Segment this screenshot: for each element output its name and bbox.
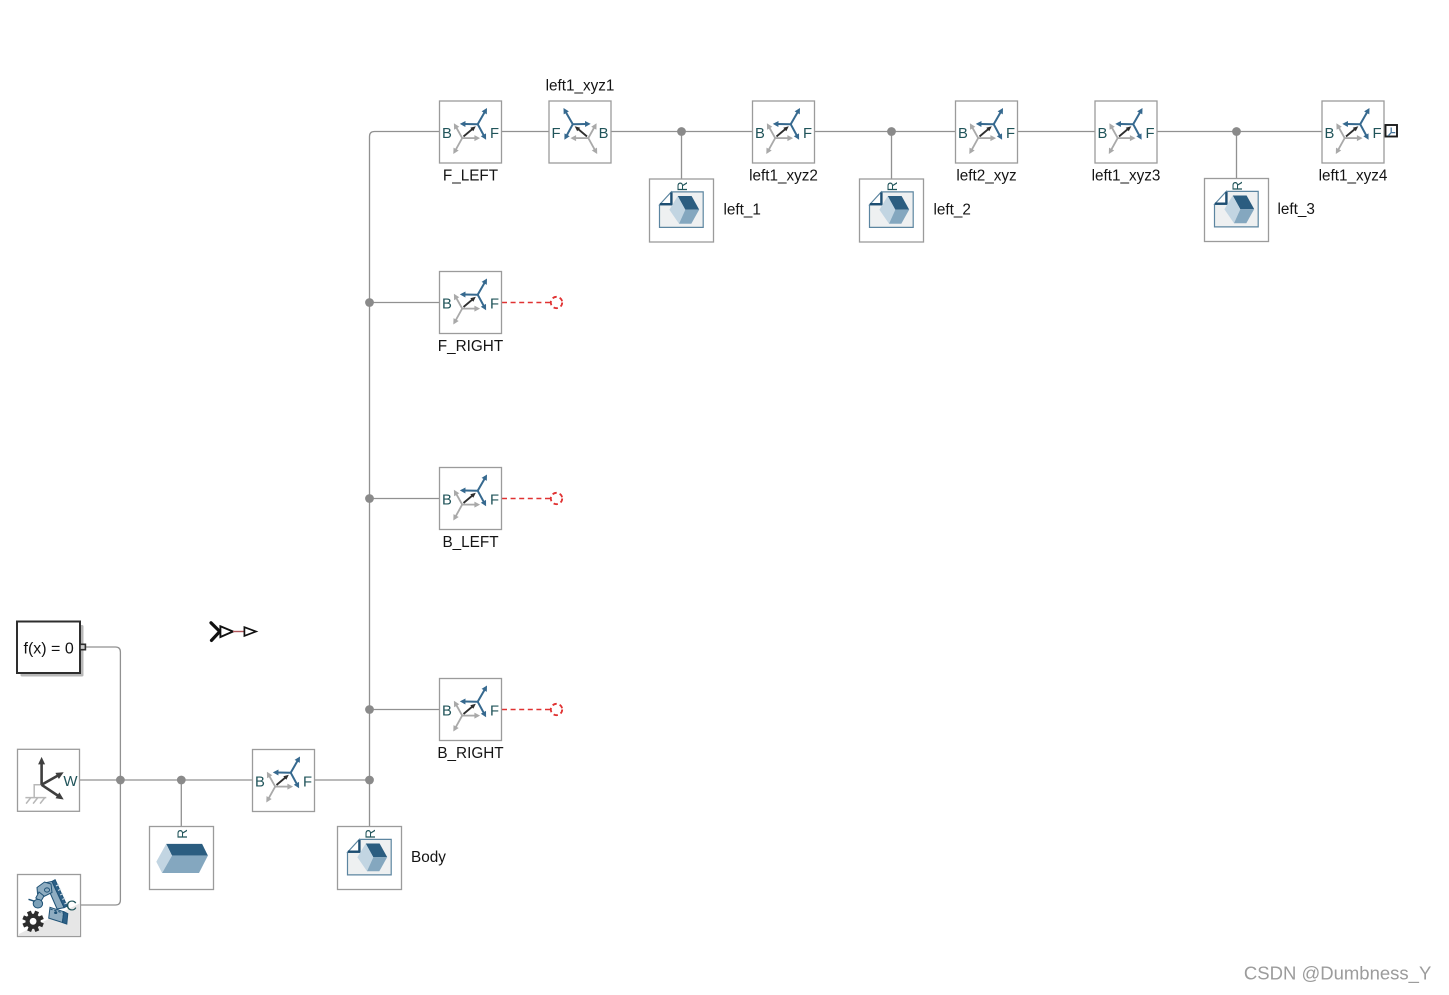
wire drop to brick solid R port [180,780,182,827]
svg-text:F_LEFT: F_LEFT [443,168,498,185]
unconnected port marker B_RIGHT F [502,704,562,715]
svg-text:B_RIGHT: B_RIGHT [437,745,503,762]
solver configuration block f(x)=0 [17,622,85,677]
wire left2_xyz to left1_xyz3 [1018,131,1096,133]
svg-text:CSDN @Dumbness_Y: CSDN @Dumbness_Y [1244,962,1431,984]
wire drop to left_2 R port [891,132,893,180]
svg-text:B: B [442,703,452,719]
rigid transform left2_xyz [956,101,1018,163]
unconnected port marker B_LEFT F [502,493,562,504]
svg-text:B: B [1098,126,1108,142]
svg-text:left2_xyz: left2_xyz [956,168,1016,185]
svg-text:R: R [885,181,900,191]
svg-text:F: F [1145,126,1154,142]
unconnected port marker F_RIGHT F [502,297,562,308]
svg-text:F: F [1372,126,1381,142]
wire left1_xyz1 to left1_xyz2 [611,131,753,133]
rigid transform left1_xyz2 [753,101,815,163]
wire left1_xyz2 to left2_xyz [815,131,956,133]
file solid left_2 [860,179,924,242]
junction B_LEFT [365,494,374,503]
svg-text:left_2: left_2 [934,201,971,218]
rigid transform F_RIGHT [440,272,502,334]
wire world W port to trunk junction [80,779,370,781]
file solid left_3 [1205,179,1269,242]
svg-text:left_3: left_3 [1278,201,1315,218]
brick solid (unnamed) [150,827,214,890]
junction left_1 [677,127,686,136]
svg-text:Body: Body [411,849,446,866]
rigid transform (unnamed, world to trunk) [253,750,315,812]
svg-text:R: R [363,829,378,839]
svg-text:B: B [599,126,609,142]
svg-text:B: B [958,126,968,142]
svg-text:B: B [755,126,765,142]
svg-text:F: F [803,126,812,142]
world frame block [18,749,80,811]
svg-text:C: C [66,898,77,915]
junction left_2 [887,127,896,136]
wire trunk vertical with corner to F_LEFT B port [370,132,440,781]
rigid transform left1_xyz4 [1322,101,1384,163]
wire drop to left_1 R port [681,132,683,180]
svg-text:B: B [442,296,452,312]
wire F_LEFT to left1_xyz1 [502,131,550,133]
svg-text:F: F [490,703,499,719]
wire trunk to F_RIGHT B port [370,302,440,304]
svg-text:f(x) = 0: f(x) = 0 [24,641,74,658]
svg-text:left1_xyz3: left1_xyz3 [1092,168,1161,185]
wire drop to left_3 R port [1236,132,1238,179]
svg-text:left1_xyz2: left1_xyz2 [749,168,818,185]
svg-text:left1_xyz4: left1_xyz4 [1319,168,1388,185]
svg-text:B: B [442,492,452,508]
junction trunk bottom [365,776,374,785]
rigid transform B_LEFT [440,468,502,530]
svg-text:left_1: left_1 [724,201,761,218]
svg-text:R: R [1230,181,1245,191]
file solid left_1 [650,179,714,242]
svg-text:left1_xyz1: left1_xyz1 [546,78,615,95]
unconnected frame port square of left1_xyz4 [1386,125,1398,137]
rigid transform left1_xyz3 [1095,101,1157,163]
svg-text:F: F [490,296,499,312]
svg-text:B_LEFT: B_LEFT [442,534,498,551]
svg-text:F_RIGHT: F_RIGHT [438,338,503,355]
svg-text:B: B [1325,126,1335,142]
rigid transform B_RIGHT [440,679,502,741]
svg-text:B: B [255,774,265,790]
junction left_3 [1232,127,1241,136]
svg-text:F: F [303,774,312,790]
svg-text:R: R [675,181,690,191]
wire left1_xyz3 to left1_xyz4 [1157,131,1322,133]
wire trunk to B_RIGHT B port [370,709,440,711]
svg-text:F: F [552,126,561,142]
svg-text:F: F [490,492,499,508]
junction F_RIGHT [365,298,374,307]
svg-text:W: W [63,773,78,790]
rigid transform left1_xyz1 (mirrored) [549,101,611,163]
file solid Body [338,827,402,890]
mechanism configuration block [18,875,81,937]
svg-text:B: B [442,126,452,142]
rigid transform F_LEFT [440,101,502,163]
junction brick solid [177,776,186,785]
wire solver and mechanism branch [81,647,121,905]
svg-text:F: F [1006,126,1015,142]
wire drop to Body R port [369,780,371,827]
junction solver branch [116,776,125,785]
svg-text:R: R [175,829,190,839]
annotation arrow icon [211,623,256,641]
svg-text:F: F [490,126,499,142]
junction B_RIGHT [365,705,374,714]
wire trunk to B_LEFT B port [370,498,440,500]
